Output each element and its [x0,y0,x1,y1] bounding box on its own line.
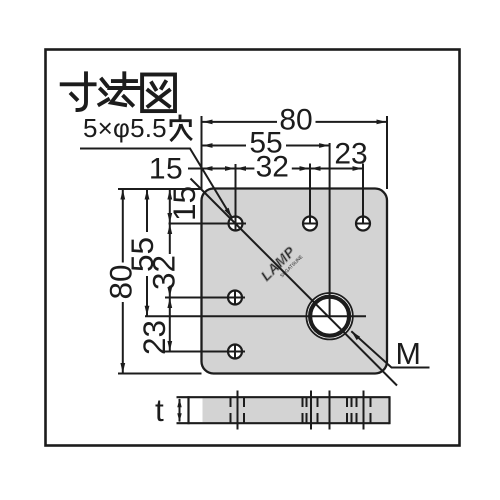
svg-text:32: 32 [146,255,182,290]
svg-text:23: 23 [136,320,172,355]
svg-text:15: 15 [149,152,183,185]
svg-text:80: 80 [279,104,312,137]
svg-text:t: t [155,392,164,428]
svg-text:15: 15 [166,186,202,221]
svg-text:23: 23 [334,138,367,171]
svg-text:5×φ5.5: 5×φ5.5 [83,113,167,143]
svg-text:M: M [396,337,421,371]
svg-text:32: 32 [256,151,289,184]
